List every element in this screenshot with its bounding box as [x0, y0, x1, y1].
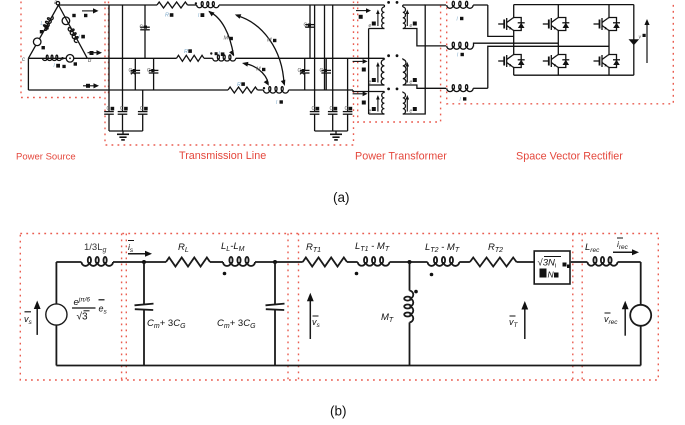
transformer Ta primary flux arrow: [376, 10, 380, 27]
label La: [198, 13, 204, 19]
svg-text:R: R: [237, 82, 241, 88]
wire dc- rail: [514, 74, 634, 76]
voltage arrow vs (source): [34, 301, 41, 335]
label 1/3Lg: [84, 242, 107, 254]
svg-text:Power Transformer: Power Transformer: [355, 151, 447, 163]
transformer Tc primary polarity dot: [387, 88, 390, 91]
wire+capacitor Csca (left bank): [149, 58, 159, 90]
caption (b): [330, 404, 347, 419]
svg-text:l: l: [198, 13, 200, 19]
current arrow ia: [82, 8, 99, 13]
wire leg Q1: [513, 5, 515, 76]
wire+capacitor Csf (right bank): [321, 58, 331, 90]
node b: [88, 58, 92, 64]
svg-text:l: l: [79, 35, 81, 41]
label Lsab: [69, 27, 85, 41]
label Rb: [184, 49, 192, 55]
svg-text:l: l: [276, 100, 278, 106]
wire delta edge c-b: [28, 57, 87, 59]
label iTb: [362, 68, 366, 72]
wire RT2 to ratio box: [517, 261, 534, 263]
ground bus right: [315, 130, 348, 132]
current arrow ib: [88, 50, 103, 55]
resistor RT2: [470, 258, 517, 267]
transistor Q2: [543, 14, 570, 34]
svg-text:1/3Lg: 1/3Lg: [84, 242, 107, 254]
label Lsbc: [54, 63, 66, 69]
mutual arrow Mbc: [242, 62, 269, 86]
inductor Lc: [264, 87, 289, 94]
wire+capacitor Cge (right bank): [328, 5, 338, 131]
transformer Tb primary polarity dot: [387, 54, 390, 57]
source vs circle: [46, 304, 67, 325]
voltage arrow vs (mid): [307, 293, 314, 339]
label Ra: [165, 13, 173, 19]
transmission line region box: [105, 2, 354, 146]
current arrow into Tb: [353, 59, 368, 64]
label Csbc: [129, 68, 137, 75]
wire Ta secondary bottom step: [403, 29, 446, 46]
svg-text:LT2 - MT: LT2 - MT: [425, 242, 460, 254]
wire RT1 to LT1: [347, 261, 358, 263]
transformer Tc secondary winding: [403, 92, 406, 115]
source Vbc (bottom delta edge): [66, 55, 74, 63]
wire delta edge a-c: [28, 5, 58, 58]
label Cga: [107, 106, 115, 112]
inductor Ls2: [447, 42, 473, 49]
node c: [22, 57, 25, 63]
svg-text:l: l: [54, 63, 56, 69]
wire leg Q3: [608, 5, 610, 76]
label is: [128, 241, 134, 255]
label irec: [617, 238, 629, 251]
resistor RT1: [303, 258, 347, 267]
polarity dot phase c: [263, 87, 265, 89]
mutual arrow Mca: [235, 14, 285, 86]
transformer Ta secondary winding: [403, 5, 406, 29]
wire phase c: [28, 90, 384, 92]
label RL: [178, 242, 189, 254]
svg-text:l: l: [460, 97, 462, 103]
label Vab: [72, 14, 75, 17]
voltage arrow vT: [521, 301, 528, 339]
svg-text:l: l: [457, 53, 459, 59]
transformer Ta primary polarity dot: [387, 1, 390, 4]
svg-text:(a): (a): [333, 190, 350, 205]
inductor Ls1: [447, 1, 488, 8]
inductor Ls3: [447, 85, 488, 92]
wire phase3 into rectifier: [488, 46, 609, 88]
svg-text:C: C: [147, 68, 151, 74]
ground bus left: [109, 130, 143, 132]
branch MT wire upper: [409, 262, 411, 291]
voltage arrow vrec: [622, 301, 629, 336]
wire+capacitor Cgc (left bank): [138, 90, 148, 131]
svg-text:c: c: [22, 57, 25, 63]
svg-text:M: M: [267, 38, 272, 44]
polarity dot LL: [223, 272, 227, 276]
power source region box: [21, 2, 105, 98]
svg-text:Space Vector Rectifier: Space Vector Rectifier: [516, 151, 623, 163]
wire top left: [56, 261, 81, 263]
transformer Tb primary winding: [381, 58, 384, 85]
wire Tb secondary bottom step: [403, 85, 446, 88]
svg-text:v: v: [639, 35, 642, 41]
label Ls3: [460, 97, 467, 103]
node dot 1: [142, 260, 146, 264]
power transformer region box: [358, 2, 441, 123]
transformer Tc secondary flux arrow: [406, 95, 410, 112]
wire phase b: [87, 57, 384, 59]
capacitor Cm+3Cg (2): [266, 262, 285, 366]
label Lsca: [40, 21, 49, 33]
label Lb: [215, 51, 225, 57]
resistor Rc: [228, 87, 257, 93]
inductor Lsab (right delta edge): [67, 26, 80, 43]
voltage arrow vR: [644, 19, 649, 63]
label Csca: [147, 68, 155, 74]
node dot 3: [408, 260, 412, 264]
wire RL to LL: [210, 261, 223, 263]
wire+capacitor Csd (right bank): [305, 5, 315, 58]
label eb2: [410, 78, 417, 86]
label Cgc: [140, 106, 148, 112]
transformer Tb primary flux arrow: [376, 62, 380, 83]
dotted separator transformer/rectifier: [573, 234, 582, 381]
inductor Lsca (left delta edge): [42, 15, 54, 31]
wire node c down: [27, 58, 29, 90]
label vT: [509, 316, 519, 329]
wire ratio box to Lrec: [571, 261, 588, 263]
label ib: [90, 51, 94, 55]
wire leg Q2: [557, 5, 559, 76]
mutual arrow Mab: [208, 11, 234, 57]
current arrow irec: [613, 249, 639, 255]
label ea2: [410, 22, 417, 30]
label Mca: [267, 38, 276, 44]
svg-text:ejπ/6: ejπ/6: [74, 297, 91, 309]
current arrow ic: [83, 83, 99, 88]
svg-text:Power Source: Power Source: [16, 152, 76, 163]
wire LT2 to RT2: [459, 261, 470, 263]
ground left: [117, 131, 129, 140]
wire phase2 into rectifier: [473, 43, 558, 46]
svg-text:MT: MT: [381, 312, 394, 324]
wire bottom rail: [56, 365, 640, 367]
svg-text:M: M: [256, 67, 261, 73]
inductor Lrec: [588, 257, 618, 266]
transformer Tc primary winding: [382, 92, 385, 115]
transistor Q4: [498, 51, 525, 71]
label MT: [381, 312, 394, 324]
svg-text:C: C: [330, 106, 334, 112]
wire to node2: [255, 261, 303, 263]
svg-text:√3Ni: √3Ni: [538, 258, 557, 270]
label iTc: [362, 101, 366, 105]
label Mbc: [256, 67, 265, 73]
svg-text:vrec: vrec: [604, 314, 618, 326]
label sqrt3N1/N2: [538, 257, 571, 280]
svg-text:C: C: [345, 106, 349, 112]
transformer Tb secondary polarity dot: [396, 54, 399, 57]
wire Tc primary bottom: [369, 113, 385, 115]
source vrec circle: [630, 305, 651, 326]
wire Tc secondary bottom to bus: [403, 5, 446, 114]
label RT1: [306, 242, 321, 254]
label Cse: [298, 68, 306, 75]
svg-text:vs: vs: [24, 314, 33, 326]
transformer Tb secondary winding: [403, 58, 406, 85]
label Cge: [330, 106, 338, 112]
branch MT wire lower: [409, 322, 411, 365]
svg-text:vT: vT: [509, 317, 519, 329]
label Csf: [320, 68, 328, 74]
wire to node1: [113, 261, 166, 263]
polarity dot phase b: [210, 52, 212, 54]
transformer Tb secondary flux arrow: [406, 62, 410, 83]
svg-text:C: C: [304, 23, 308, 29]
label Csd: [304, 23, 312, 29]
transformer Ta secondary flux arrow: [406, 10, 410, 27]
label vR: [639, 34, 646, 41]
current arrow into Tc: [353, 91, 368, 96]
label ea1: [369, 22, 376, 30]
label eb1: [369, 78, 376, 86]
svg-text:es: es: [99, 304, 108, 316]
svg-text:R: R: [165, 13, 169, 19]
polarity dot LT1: [355, 272, 359, 276]
region label Power Transformer: [355, 151, 447, 163]
inductor La: [197, 2, 219, 8]
polarity dot LT2: [430, 273, 434, 277]
node a: [54, 0, 60, 6]
source Vab (right delta edge): [62, 17, 70, 25]
wire+capacitor Cgb (left bank): [118, 5, 128, 131]
region label Power Source: [16, 152, 76, 163]
svg-text:l: l: [457, 17, 459, 23]
transformer Tc secondary polarity dot: [396, 88, 399, 91]
transformer Tc primary flux arrow: [376, 95, 380, 112]
current arrow into Ta: [356, 8, 371, 13]
svg-text:LT1 - MT: LT1 - MT: [355, 241, 390, 253]
wire delta edge a-b: [59, 5, 88, 58]
svg-text:l: l: [219, 51, 221, 57]
svg-text:Lrec: Lrec: [585, 242, 600, 254]
capacitor Cm+3Cg (1): [135, 262, 154, 366]
svg-text:R: R: [184, 49, 188, 55]
dotted separator line/transformer: [288, 234, 299, 381]
label ic: [86, 84, 90, 88]
label Vca: [42, 46, 45, 49]
wire+capacitor Csbc (left bank): [131, 58, 141, 90]
svg-text:vs: vs: [312, 317, 321, 329]
svg-text:C: C: [107, 106, 111, 112]
source Vca (left delta edge): [33, 38, 41, 46]
svg-text:L: L: [41, 21, 44, 27]
current arrow is: [128, 251, 152, 257]
wire+capacitor Cga (left bank): [104, 5, 114, 131]
svg-text:irec: irec: [617, 239, 629, 251]
wire+capacitor Cgd (right bank): [310, 5, 320, 131]
label vrec: [604, 313, 618, 326]
label Cgd: [312, 106, 320, 112]
wire Ta secondary top out: [403, 4, 425, 6]
region label Transmission Line: [179, 150, 266, 162]
label RT2: [488, 242, 503, 254]
transistor Q5: [543, 51, 570, 71]
inductor MT: [404, 291, 413, 323]
transistor Q1: [498, 14, 525, 34]
region label Space Vector Rectifier: [516, 151, 623, 163]
label Cm+3Cg (1): [147, 318, 186, 330]
label iTa: [359, 15, 363, 19]
output marker triangle: [629, 39, 640, 45]
wire dc output: [633, 5, 635, 76]
wire right branch: [640, 262, 642, 366]
svg-text:Cm+ 3CG: Cm+ 3CG: [147, 318, 186, 330]
inductor Lb: [213, 55, 236, 61]
svg-text:C: C: [312, 106, 316, 112]
inductor LT1-MT: [358, 257, 390, 266]
wire to node3: [390, 261, 428, 263]
transistor Q3: [594, 14, 621, 34]
wire phase1 into rectifier: [488, 5, 514, 36]
svg-text:√3: √3: [77, 311, 88, 323]
label ec1: [369, 107, 376, 115]
label ia: [84, 14, 87, 17]
wire Ta primary bottom: [369, 28, 385, 30]
wire dc+ rail: [514, 4, 634, 6]
wire vertical (right bank): [324, 5, 326, 90]
wire+capacitor Cgf (right bank): [343, 58, 353, 131]
dotted separator source/line: [122, 234, 127, 381]
svg-text:M: M: [224, 36, 229, 42]
label source value e^jpi/6 / sqrt3 es: [72, 297, 108, 323]
label Ls1: [457, 17, 464, 23]
wire top right: [618, 261, 641, 263]
space vector rectifier region box: [447, 2, 674, 104]
label Cm+3Cg (2): [217, 318, 256, 330]
label Vbc: [74, 62, 77, 65]
svg-text:(b): (b): [330, 404, 347, 419]
resistor Ra: [157, 2, 188, 8]
label Ls2: [457, 53, 464, 59]
svg-text:N: N: [548, 270, 555, 280]
label Cgf: [345, 106, 353, 112]
svg-text:is: is: [128, 242, 134, 254]
svg-text:C: C: [320, 68, 324, 74]
svg-text:Transmission Line: Transmission Line: [179, 150, 266, 162]
transistor Q6: [594, 51, 621, 71]
transformer Ta primary winding: [382, 5, 385, 29]
resistor Rb: [177, 55, 204, 61]
label LT2-MT: [425, 242, 460, 254]
label Cgb: [120, 106, 128, 112]
node dot 2: [273, 260, 277, 264]
wire left branch: [55, 262, 57, 366]
polarity dot phase a: [195, 2, 197, 4]
label LT1-MT: [355, 241, 390, 253]
ground right: [330, 131, 342, 140]
inductor LL-LM: [223, 257, 255, 266]
svg-text:C: C: [120, 106, 124, 112]
svg-text:LL-LM: LL-LM: [221, 241, 245, 253]
label Lrec: [585, 242, 600, 254]
wire primary neutral bus: [368, 29, 370, 115]
equivalent circuit outer dotted box: [20, 234, 658, 381]
inductor Lsbc (bottom delta edge): [43, 55, 64, 60]
svg-text:RL: RL: [178, 242, 189, 254]
wire phase a: [59, 4, 385, 6]
label LL-LM: [221, 241, 245, 253]
caption (a): [333, 190, 350, 205]
label Rc: [237, 82, 245, 88]
wire Tb primary bottom: [369, 84, 385, 86]
label Lc: [276, 100, 283, 106]
inductor LT2-MT: [428, 257, 460, 266]
resistor RL: [166, 258, 210, 267]
wire+capacitor Cse (right bank): [300, 58, 310, 90]
label vs (mid): [312, 316, 321, 329]
svg-text:RT1: RT1: [306, 242, 321, 254]
polarity dot MT: [414, 290, 418, 294]
inductor 1/3Lg: [82, 257, 114, 266]
transformer ratio block sqrt(3)N1/N2: [534, 251, 570, 284]
label Csab: [140, 25, 148, 31]
svg-text:Cm+ 3CG: Cm+ 3CG: [217, 318, 256, 330]
wire+capacitor Csab (left bank): [140, 5, 150, 58]
svg-text:RT2: RT2: [488, 242, 503, 254]
label ec2: [410, 107, 417, 115]
transformer Ta secondary polarity dot: [396, 1, 399, 4]
label vs (source): [24, 312, 33, 326]
label Mab: [224, 36, 233, 42]
svg-text:C: C: [140, 25, 144, 31]
svg-text:C: C: [140, 106, 144, 112]
